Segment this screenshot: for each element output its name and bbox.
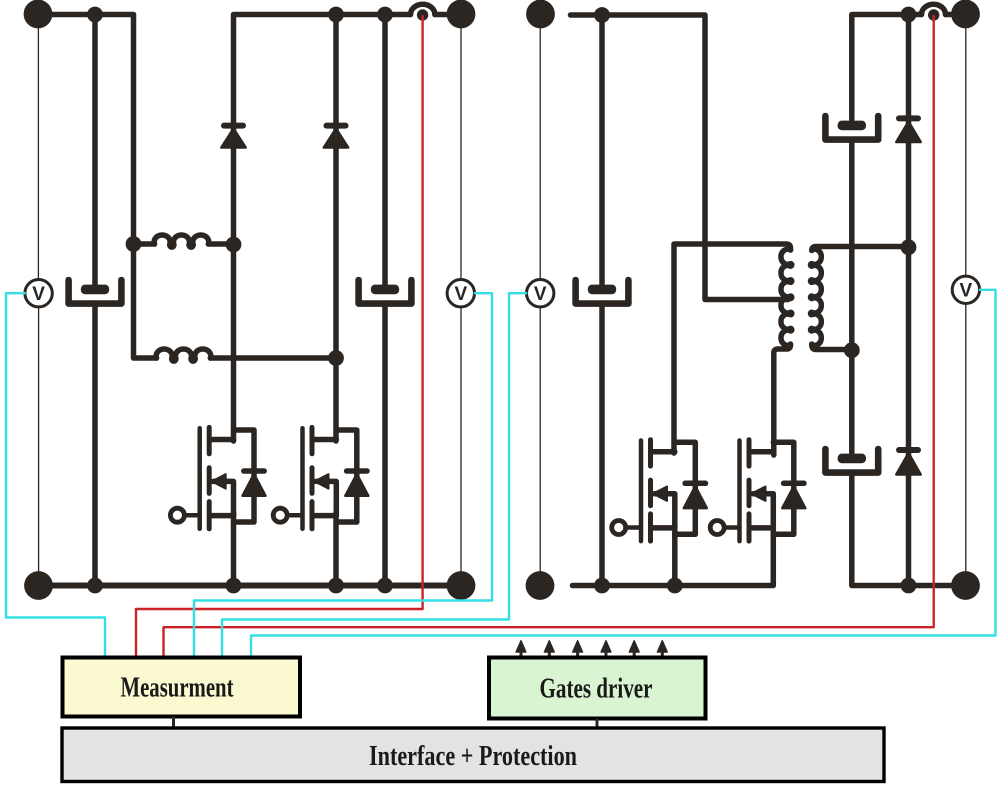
inductor L1 <box>134 235 234 247</box>
voltmeter V1 <box>25 280 52 307</box>
terminal: right circuit bottom right <box>951 571 980 600</box>
block: Gates driver box <box>489 658 706 719</box>
node: right top bus junction (C3 branch) <box>594 7 610 23</box>
node: bottom bus junction Q1 <box>226 578 242 594</box>
transistor Q3 gate electrode <box>639 441 644 542</box>
wire: cyan V3 lead to Measurment box <box>222 293 526 656</box>
wire: C5 down and right bottom output bus <box>852 472 953 586</box>
transistor Q1 gate lead <box>184 513 199 518</box>
voltmeter V4 sense wire upper <box>965 27 967 276</box>
wire: Q2 source to bottom bus <box>333 513 339 586</box>
node: left top bus junction (C1 branch) <box>87 7 103 23</box>
transistor Q4 body diode <box>782 483 805 508</box>
wire: red measurement lead (right circuit) to Measurment box <box>164 16 934 656</box>
node: bottom bus junction C3 <box>594 578 610 594</box>
svg-text:Interface + Protection: Interface + Protection <box>369 740 577 772</box>
transformer T1 secondary winding <box>810 249 821 345</box>
transistor Q3 body-diode loop wire <box>675 442 696 534</box>
wire: left top bus segment with corner down to inductor L1 <box>27 15 134 245</box>
capacitor C2 <box>359 280 412 304</box>
svg-text:V: V <box>534 284 547 305</box>
transistor Q2 bulk connection wire <box>316 481 336 515</box>
terminal: right circuit bottom left <box>526 571 555 600</box>
wire: vertical from L1 left down to inductor L2 <box>134 244 157 358</box>
transistor Q1 bulk connection wire <box>213 481 233 515</box>
terminal: right circuit top right <box>951 0 980 28</box>
transistor Q4 gate lead <box>724 525 739 530</box>
capacitor C5 <box>825 449 878 473</box>
transistor Q3 drain stub <box>652 449 675 455</box>
transistor Q2 gate lead <box>287 513 302 518</box>
voltmeter V4 sense wire lower <box>965 304 967 573</box>
transistor Q2 bulk arrowhead <box>315 474 329 488</box>
wire: cyan V1 lead to Measurment box <box>6 293 105 656</box>
node: top bus junction (C2 branch) <box>377 7 393 23</box>
terminal: DC input + (left circuit) <box>24 0 53 28</box>
transistor Q2 body-diode loop wire <box>336 430 357 522</box>
crossover hop on left top bus <box>411 4 451 14</box>
svg-text:Gates driver: Gates driver <box>540 673 653 705</box>
wire: Q3 source to bottom bus <box>672 525 678 586</box>
wire: red measurement lead (left circuit) to Measurment box <box>136 16 423 656</box>
node: L1 left junction <box>126 236 142 252</box>
terminal: left circuit bottom left <box>24 571 53 600</box>
transistor Q2 body diode <box>345 471 368 496</box>
svg-text:Measurment: Measurment <box>121 672 234 704</box>
transistor Q4 drain stub <box>750 449 773 455</box>
transistor Q1 channel segments <box>207 427 212 528</box>
node: secondary bottom junction <box>844 342 860 358</box>
wire: right primary bottom bus with corner up to Q4 source <box>573 527 774 586</box>
wire: right top bus with corner down to transformer tap <box>571 15 789 300</box>
svg-text:V: V <box>960 281 973 302</box>
diode D3 <box>896 450 920 475</box>
gate drive arrows <box>516 641 667 658</box>
voltmeter V4 <box>952 276 979 303</box>
wire: C3 branch upper <box>599 15 605 289</box>
wire: cyan V4 lead to Measurment box <box>251 290 996 656</box>
svg-text:V: V <box>454 284 467 305</box>
transistor Q4 gate terminal circle <box>710 521 724 535</box>
transistor Q1 drain stub <box>210 437 233 443</box>
voltmeter V2 <box>447 280 474 307</box>
node: measurement tap dot (left) <box>417 9 428 20</box>
node: L1 right junction <box>226 237 242 253</box>
wire: C3 branch lower <box>599 303 605 586</box>
node: bottom bus junction C1 <box>87 578 103 594</box>
wire: D2 to L2 junction to Q2 drain <box>333 128 339 441</box>
wire: C2 branch lower <box>382 303 388 586</box>
node: right top bus junction (D4 branch) <box>901 7 917 23</box>
node: L2 right junction <box>328 350 344 366</box>
transistor Q1 body diode <box>243 471 266 496</box>
wire: D2 branch from top bus <box>333 15 339 126</box>
node: measurement tap dot (right) <box>928 9 939 20</box>
transistor Q1 body-diode loop wire <box>234 430 255 522</box>
transistor Q4 bulk connection wire <box>753 494 773 528</box>
transistor Q2 drain stub <box>313 437 336 443</box>
transistor Q4 body-diode loop wire <box>773 442 794 534</box>
wire: Q3 drain to transformer primary top <box>674 244 791 453</box>
wire: secondary top to rectifier line <box>812 247 909 251</box>
transistor Q3 gate terminal circle <box>612 521 626 535</box>
transistor Q3 channel segments <box>648 440 653 541</box>
diode D1 <box>221 126 245 148</box>
voltmeter V2 sense wire upper <box>460 27 462 280</box>
wire: rectifier branch D4/D3 <box>906 15 912 586</box>
wire: right output top bus corner <box>852 15 922 120</box>
svg-text:V: V <box>32 284 45 305</box>
capacitor C4 <box>825 116 878 140</box>
transistor Q1 bulk arrowhead <box>212 474 226 488</box>
transistor Q3 gate lead <box>626 525 641 530</box>
voltmeter V3 sense wire lower <box>539 307 541 572</box>
voltmeter V1 sense wire lower <box>38 307 40 572</box>
transistor Q4 bulk arrowhead <box>752 487 766 501</box>
inductor L2 <box>156 349 336 361</box>
transistor Q2 gate terminal circle <box>273 508 287 522</box>
node: bottom bus junction C2 <box>377 578 393 594</box>
transistor Q1 gate terminal circle <box>170 508 184 522</box>
connector: Measurment to Interface <box>172 717 175 730</box>
transistor Q3 bulk connection wire <box>655 494 675 528</box>
node: bottom output bus junction (D3 branch) <box>901 578 917 594</box>
wire: left bottom bus <box>27 583 461 589</box>
voltmeter V3 sense wire upper <box>539 27 541 280</box>
transistor Q3 source stub <box>652 525 675 531</box>
wire: C1 branch lower <box>92 303 98 586</box>
voltmeter V3 <box>527 280 554 307</box>
capacitor C3 <box>576 280 629 304</box>
diode D4 <box>896 118 920 142</box>
wire: left top bus segment B (from D1 corner to crossover hop) <box>234 15 411 126</box>
block: Interface + Protection box <box>62 728 884 782</box>
wire: C1 branch upper <box>92 15 98 290</box>
capacitor C1 <box>69 280 122 304</box>
wire: secondary bottom to output line <box>812 344 852 350</box>
transistor Q2 gate electrode <box>300 428 305 529</box>
transistor Q1 source stub <box>210 513 233 519</box>
node: top bus junction (D2 branch) <box>328 7 344 23</box>
terminal: left circuit top right <box>447 0 476 28</box>
transistor Q3 bulk arrowhead <box>653 487 667 501</box>
wire: C4 to secondary junction to C5 <box>849 140 855 454</box>
node: bottom bus junction Q3 <box>667 578 683 594</box>
voltmeter V1 sense wire upper <box>37 27 39 280</box>
wire: primary bottom to Q4 drain <box>774 344 791 455</box>
transistor Q2 source stub <box>313 513 336 519</box>
wire: Q1 source to bottom bus <box>231 513 237 586</box>
node: bottom bus junction Q2 <box>328 578 344 594</box>
transistor Q2 channel segments <box>310 427 315 528</box>
transistor Q4 source stub <box>750 525 773 531</box>
connector: Gates driver to Interface <box>596 719 599 730</box>
transistor Q4 channel segments <box>747 440 752 541</box>
wire: D1 to Q1 drain <box>231 128 237 441</box>
wire: C2 branch upper <box>382 15 388 290</box>
crossover hop on right output bus <box>922 4 954 14</box>
transistor Q1 gate electrode <box>197 428 202 529</box>
voltmeter V2 sense wire lower <box>460 307 462 572</box>
terminal: left circuit bottom right <box>447 571 476 600</box>
diode D2 <box>324 126 348 148</box>
block: Measurment box <box>63 658 301 717</box>
transistor Q3 body diode <box>684 483 707 508</box>
terminal: right circuit top left <box>526 0 555 28</box>
node: rectifier junction at secondary top <box>901 239 917 255</box>
wire: cyan V2 lead to Measurment box <box>194 293 492 656</box>
transistor Q4 gate electrode <box>737 441 742 542</box>
transformer T1 primary winding <box>781 249 792 345</box>
